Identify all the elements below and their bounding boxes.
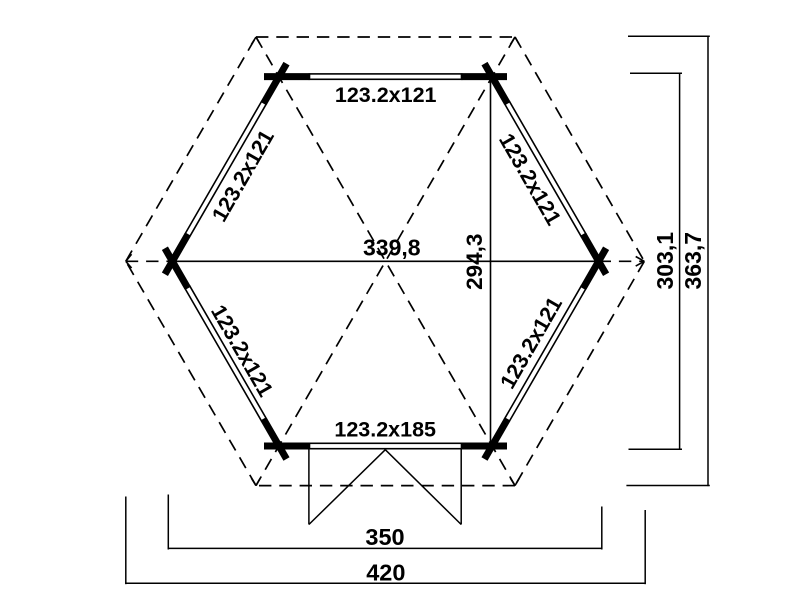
centre line vertical solid (294,3) (490, 77, 492, 446)
roof edge lower-right (515, 261, 644, 485)
label 339,8 internal width (363, 234, 421, 260)
upper-right wall: corner bars (485, 64, 607, 275)
arrow right at right vertex (636, 257, 645, 267)
top wall: corner bars (264, 73, 507, 80)
svg-text:350: 350 (365, 524, 404, 550)
label 420 (366, 560, 405, 586)
label 350 (365, 524, 404, 550)
svg-text:123.2x121: 123.2x121 (335, 83, 437, 107)
door: left leaf swing (309, 450, 385, 525)
svg-text:303,1: 303,1 (652, 232, 678, 290)
dimension line 363,7 (roof height) (626, 36, 709, 486)
centre line horizontal dashed right (599, 260, 645, 262)
label 123.2x121 lower-right wall (496, 293, 568, 393)
label 363,7 (680, 232, 706, 290)
svg-text:294,3: 294,3 (462, 234, 487, 290)
roof edge top (256, 36, 515, 38)
lower-right wall: corner bars (485, 248, 607, 459)
top wall: opening (310, 74, 462, 79)
roof edge lower-left (126, 261, 256, 485)
door: left jamb line (308, 449, 310, 525)
dimension line 303,1 (wall height) (629, 73, 683, 450)
label 123.2x185 bottom wall (334, 418, 436, 442)
svg-text:123.2x185: 123.2x185 (334, 418, 436, 442)
lower-left wall: opening (185, 286, 266, 421)
label 123.2x121 upper-right wall (494, 129, 566, 229)
bottom wall (door wall): corner bars (264, 443, 507, 450)
label 123.2x121 lower-left wall (206, 301, 278, 401)
arrow down at bottom-left vertex (251, 478, 260, 485)
diagonal TR-BL (256, 37, 515, 486)
roof edge upper-left (126, 37, 256, 261)
arrow up at top-right vertex (510, 37, 519, 44)
label 303,1 (652, 232, 678, 290)
roof edge bottom (256, 485, 515, 487)
svg-text:420: 420 (366, 560, 405, 586)
bottom wall (door wall): opening (310, 443, 462, 448)
svg-text:363,7: 363,7 (680, 232, 706, 290)
centre line horizontal dashed left (126, 260, 173, 262)
upper-left wall: corner bars (165, 64, 287, 275)
diagonal TL-BR (256, 37, 515, 486)
arrow down at bottom-right vertex (510, 478, 519, 485)
label 294,3 internal height (462, 234, 487, 290)
dimension line 420 (roof width) (125, 497, 645, 585)
door: right leaf swing (385, 450, 461, 525)
centre line horizontal solid (339,8) (172, 260, 598, 262)
arrow left at left vertex (126, 254, 132, 268)
arrow up at top-left vertex (251, 37, 260, 44)
dimension line 350 (wall width) (168, 495, 603, 550)
label 123.2x121 upper-left wall (207, 126, 279, 226)
lower-left wall: corner bars (165, 248, 287, 459)
roof edge upper-right (515, 37, 644, 261)
svg-text:339,8: 339,8 (363, 234, 421, 260)
lower-right wall: opening (505, 286, 586, 421)
upper-left wall: opening (185, 102, 266, 237)
label 123.2x121 top wall (335, 83, 437, 107)
door: right jamb line (460, 449, 462, 525)
upper-right wall: opening (505, 102, 586, 237)
